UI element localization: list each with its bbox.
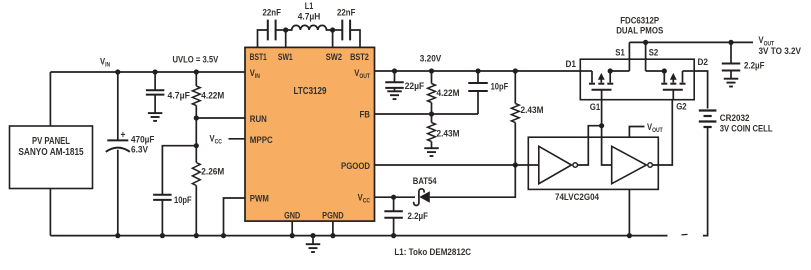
inverter U2A [539, 146, 572, 183]
resistor 2.43M-pullup lead top [514, 71, 516, 104]
transistor Q1-Q2 package [580, 59, 694, 99]
IC U1 LTC3129 body [245, 47, 375, 221]
junction 2.26M-gnd [194, 233, 199, 238]
junction FB node [429, 111, 434, 116]
capacitor 4.7uF lead bottom [154, 95, 156, 114]
resistor R2 2.26M [192, 163, 200, 186]
svg-text:3V COIN CELL: 3V COIN CELL [720, 123, 773, 134]
PV panel box [10, 126, 93, 189]
junction 4.22M-fb top [429, 68, 434, 73]
junction Q1 body-source [608, 68, 613, 73]
resistor R5 2.43M pullup [511, 104, 519, 123]
battery BT1 CR2032 [699, 109, 717, 111]
svg-text:D1: D1 [566, 59, 577, 70]
junction SW2 node [330, 27, 335, 32]
transistor Q1 drain wire [580, 70, 592, 72]
svg-text:4.22M: 4.22M [437, 88, 460, 99]
wire BST2 riser [350, 30, 360, 47]
capacitor 470uF lead bottom [117, 150, 119, 236]
svg-text:10pF: 10pF [491, 81, 509, 92]
capacitor C7 10pF [468, 82, 488, 84]
svg-text:10pF: 10pF [174, 195, 192, 206]
junction G1 node [599, 123, 604, 128]
wire RUN node down [195, 118, 197, 146]
svg-text:UVLO = 3.5V: UVLO = 3.5V [173, 54, 219, 65]
svg-text:OUT: OUT [359, 73, 370, 80]
resistor 2.26M lead top [195, 146, 197, 163]
junction 10pF-gnd [160, 233, 165, 238]
wire 22nF-left to SW1 [276, 29, 286, 31]
junction 74LVC-gnd [627, 233, 632, 238]
junction RUN node [194, 115, 199, 120]
svg-text:PGND: PGND [322, 210, 344, 221]
svg-text:SW2: SW2 [326, 52, 342, 63]
wire PV panel bottom to ground rail [49, 189, 51, 236]
IC U2 74LVC2G04 body [528, 137, 658, 189]
svg-text:22µF: 22µF [405, 81, 425, 92]
wire RUN [196, 117, 245, 119]
resistor 4.22M lead top [195, 72, 197, 86]
resistor 4.22M-fb lead bottom [431, 103, 433, 115]
junction PWM-gnd [221, 233, 226, 238]
resistor 2.43M-pullup lead bottom [514, 123, 516, 166]
junction 10pF-fb top [475, 68, 480, 73]
capacitor 22uF lead bottom [394, 88, 396, 91]
svg-text:2.2µF: 2.2µF [744, 61, 765, 72]
svg-text:OUT: OUT [652, 127, 663, 134]
resistor 4.22M lead bottom [195, 106, 197, 119]
wire 74LVC gnd [628, 189, 630, 235]
svg-text:4.7µH: 4.7µH [298, 11, 321, 22]
junction GND-rail [290, 233, 295, 238]
wire G1 node to U2B in [602, 126, 612, 165]
resistor R4 2.43M [428, 123, 436, 142]
resistor R3 4.22M [428, 84, 436, 103]
svg-text:MPPC: MPPC [250, 135, 273, 146]
wire FB [375, 113, 479, 115]
capacitor C4 22nF left [267, 20, 269, 41]
junction PGOOD node [513, 162, 518, 167]
wire U2A out riser [578, 126, 602, 165]
svg-text:SW1: SW1 [278, 52, 293, 63]
wire SW2 riser [332, 30, 334, 47]
svg-text:CR2032: CR2032 [720, 113, 750, 124]
svg-text:22nF: 22nF [263, 8, 282, 19]
junction output cap node [728, 40, 733, 45]
svg-text:RUN: RUN [250, 114, 267, 125]
svg-text:3V TO 3.2V: 3V TO 3.2V [759, 46, 802, 57]
capacitor 22uF lead [394, 71, 396, 82]
wire S rail [629, 41, 753, 43]
transistor Q2 arrow [672, 79, 674, 83]
wire BAT54 anode to PGOOD [430, 165, 516, 197]
svg-text:G1: G1 [590, 102, 601, 113]
wire Q1 source to S1 [610, 70, 629, 72]
svg-text:L1: Toko DEM2812C: L1: Toko DEM2812C [394, 247, 471, 258]
capacitor 470uF lead top [117, 72, 119, 140]
junction VCC node [391, 195, 396, 200]
wire PWM stub [224, 198, 246, 236]
ground 2.2uF-out [724, 78, 739, 80]
svg-text:IN: IN [105, 62, 110, 69]
svg-text:22nF: 22nF [337, 8, 356, 19]
ground main [310, 233, 315, 238]
wire VCC [375, 196, 416, 198]
svg-text:PV PANEL: PV PANEL [32, 136, 70, 147]
wire S2 to Q2 source [646, 70, 665, 72]
wire SW2 to 22nF-right [333, 29, 343, 31]
svg-text:D2: D2 [698, 57, 709, 68]
capacitor 10pF-fb lead top [477, 71, 479, 83]
junction 22uF top [392, 68, 397, 73]
node VIN junction [115, 69, 120, 74]
junction MPPC divider node [194, 143, 199, 148]
wire S1 riser [628, 42, 630, 71]
wire battery to ground rail [703, 127, 708, 236]
svg-text:74LVC2G04: 74LVC2G04 [555, 192, 600, 203]
junction 4.22M top [194, 69, 199, 74]
wire VOUT rail 3.2V [375, 70, 581, 72]
svg-text:2.43M: 2.43M [437, 129, 460, 140]
transistor Q2 channel pads [661, 83, 667, 85]
capacitor C8 2.2uF [384, 210, 403, 212]
junction S2 rail [643, 40, 648, 45]
svg-text:CC: CC [363, 198, 371, 205]
transistor Q2 gate plate [663, 89, 683, 91]
svg-text:2.26M: 2.26M [201, 167, 224, 178]
junction 2.43M-pullup top [513, 68, 518, 73]
svg-text:4.7µF: 4.7µF [168, 90, 191, 101]
ground 2.43M-fb [424, 147, 439, 149]
wire G1 riser [601, 100, 603, 126]
svg-text:PWM: PWM [250, 194, 269, 205]
svg-text:470µF: 470µF [131, 134, 155, 145]
transistor Q1 gate lead [601, 90, 603, 100]
junction Q2 body-source [662, 68, 667, 73]
resistor 4.22M-fb lead top [431, 71, 433, 84]
svg-text:DUAL PMOS: DUAL PMOS [616, 26, 663, 37]
wire BST1 riser [258, 30, 268, 47]
inverter U2B [612, 146, 647, 183]
svg-text:L1: L1 [305, 1, 314, 12]
svg-text:2.2µF: 2.2µF [408, 211, 429, 222]
ground 22uF [387, 90, 402, 92]
diode D1 BAT54 [419, 191, 430, 203]
svg-text:6.3V: 6.3V [131, 145, 149, 156]
resistor R1 4.22M [192, 86, 200, 106]
capacitor 2.2uF-out lead top [730, 42, 732, 63]
wire VIN rail [50, 71, 245, 73]
wire D2 to battery [694, 71, 707, 109]
capacitor C5 22nF right [341, 20, 343, 41]
svg-text:GND: GND [284, 210, 300, 221]
resistor 2.43M-fb lead bottom [431, 142, 433, 149]
transistor Q1 gate plate [592, 89, 612, 91]
wire SW1 riser [285, 30, 287, 47]
transistor Q2 source stub [663, 71, 665, 83]
wire U2B out to G2 [652, 100, 672, 165]
resistor 2.26M lead bottom [195, 186, 197, 236]
wire ground rail [50, 235, 667, 237]
wire GND pin [291, 221, 293, 236]
junction PGND-rail [330, 233, 335, 238]
transistor Q1 arrow [600, 79, 602, 83]
transistor Q1 source stub [609, 71, 611, 83]
svg-text:+: + [121, 129, 126, 141]
svg-text:BAT54: BAT54 [413, 176, 437, 187]
capacitor 4.7uF lead [154, 72, 156, 90]
svg-text:PGOOD: PGOOD [341, 161, 370, 172]
capacitor C3 10pF [153, 194, 172, 196]
junction 2.2uF-gnd [391, 233, 396, 238]
svg-text:FB: FB [360, 110, 371, 121]
svg-text:BST2: BST2 [350, 52, 369, 63]
resistor 2.43M-fb lead top [431, 114, 433, 123]
capacitor C2 4.7uF [146, 89, 165, 91]
transistor Q1 channel pads [589, 83, 595, 85]
inductor L1 [286, 25, 333, 30]
capacitor C1 470uF polarized [107, 139, 128, 141]
capacitor 2.2uF-vcc lead top [393, 197, 395, 211]
svg-text:IN: IN [255, 73, 260, 80]
junction 470uF-gnd [115, 233, 120, 238]
svg-text:G2: G2 [676, 102, 687, 113]
net label VOUT inverter [629, 127, 644, 139]
svg-text:2.43M: 2.43M [521, 105, 544, 116]
svg-text:LTC3129: LTC3129 [294, 86, 327, 97]
transistor Q2 gate lead [672, 90, 674, 100]
svg-text:S1: S1 [615, 47, 625, 58]
capacitor C9 2.2uF out [722, 63, 741, 65]
transistor Q2 drain stub [682, 71, 684, 83]
ground 4.7uF [148, 112, 163, 114]
wire ground rail fragment [682, 233, 688, 236]
svg-text:SANYO AM-1815: SANYO AM-1815 [18, 147, 84, 158]
wire to 10pF branch [162, 146, 196, 195]
junction 4.7uF top [153, 69, 158, 74]
capacitor 10pF-fb lead bottom [477, 91, 479, 114]
wire S2 riser [645, 42, 647, 71]
wire PV panel top to VIN rail [49, 72, 51, 126]
capacitor 2.2uF-vcc lead bottom [393, 218, 395, 236]
svg-text:S2: S2 [649, 47, 659, 58]
svg-text:BST1: BST1 [250, 52, 268, 63]
capacitor 2.2uF-out lead bottom [730, 71, 732, 79]
svg-text:CC: CC [215, 139, 223, 146]
junction SW1 node [283, 27, 288, 32]
capacitor 10pF lead bottom [161, 200, 163, 236]
wire PGOOD [375, 164, 539, 166]
capacitor C6 22uF [385, 81, 404, 83]
wire PGND pin [332, 221, 334, 236]
svg-text:3.20V: 3.20V [420, 54, 442, 65]
svg-text:4.22M: 4.22M [201, 90, 224, 101]
